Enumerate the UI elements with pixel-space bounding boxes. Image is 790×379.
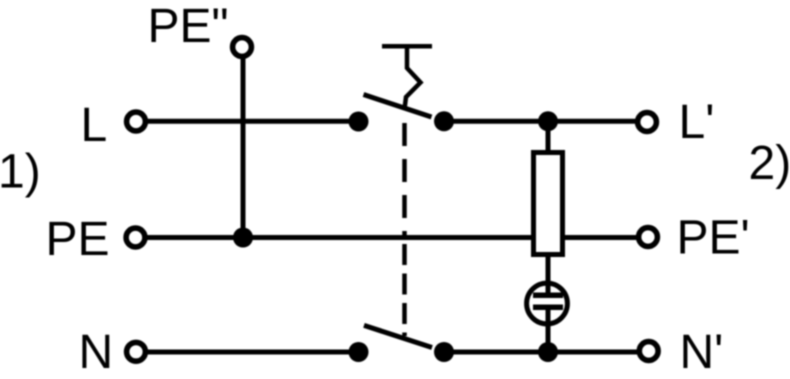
svg-text:PE: PE [46,213,110,266]
svg-text:2): 2) [749,137,790,190]
svg-text:N': N' [680,326,724,379]
svg-text:PE": PE" [148,0,229,53]
svg-text:N: N [79,326,114,379]
svg-text:L': L' [679,96,715,149]
svg-text:PE': PE' [677,212,750,265]
svg-text:L: L [81,99,108,152]
svg-text:1): 1) [0,146,41,199]
